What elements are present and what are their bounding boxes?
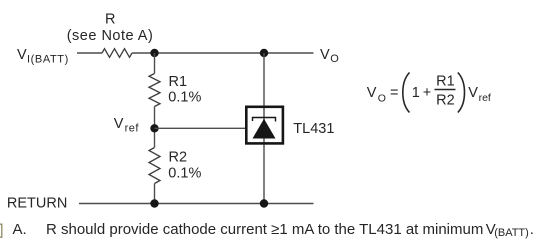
svg-text:V: V bbox=[114, 116, 124, 132]
node: TL431 anode junction bbox=[260, 199, 268, 207]
label VO bbox=[320, 47, 339, 65]
TL431 cathode bar bbox=[253, 118, 276, 122]
svg-text:TL431: TL431 bbox=[293, 121, 334, 137]
svg-text:ref: ref bbox=[125, 123, 140, 135]
svg-text:RETURN: RETURN bbox=[7, 195, 67, 211]
svg-text:R1: R1 bbox=[169, 74, 188, 90]
resistor R bbox=[102, 49, 132, 58]
svg-text:V: V bbox=[320, 47, 330, 63]
wire: resistor R to VO bbox=[132, 52, 314, 54]
wire: Vref node to TL431 ref pin bbox=[155, 127, 247, 129]
svg-text:I(BATT): I(BATT) bbox=[27, 54, 69, 66]
formula VO = (1 + R1/R2) Vref bbox=[367, 73, 491, 113]
svg-text:0.1%: 0.1% bbox=[168, 166, 201, 182]
node: TL431 cathode junction bbox=[260, 49, 268, 57]
svg-text:R2: R2 bbox=[436, 92, 455, 108]
svg-text:(see Note A): (see Note A) bbox=[67, 28, 154, 44]
label Vref bbox=[114, 116, 140, 135]
wire: VI(BATT) to resistor R bbox=[77, 52, 102, 54]
svg-text:ref: ref bbox=[479, 92, 491, 104]
svg-text:=: = bbox=[390, 85, 398, 101]
svg-text:1: 1 bbox=[412, 85, 420, 101]
svg-text:+: + bbox=[423, 85, 431, 101]
wire: left vertical, junction to R1 bbox=[154, 53, 156, 74]
node: R2 bottom junction bbox=[150, 199, 158, 207]
svg-text:O: O bbox=[378, 93, 386, 105]
op-amp U1 TL431 box bbox=[246, 107, 283, 144]
svg-text:(BATT): (BATT) bbox=[494, 227, 529, 239]
svg-text:A.: A. bbox=[13, 221, 27, 238]
wire: left vertical, R1 to R2 bbox=[154, 107, 156, 148]
svg-text:V: V bbox=[367, 85, 377, 101]
wire: left vertical, R2 to RETURN bbox=[154, 184, 156, 204]
svg-text:V: V bbox=[17, 47, 27, 63]
node Vref bbox=[150, 124, 158, 132]
svg-text:R: R bbox=[105, 12, 115, 28]
label VI(BATT) bbox=[17, 47, 69, 66]
svg-text:.: . bbox=[530, 221, 534, 238]
TL431 anode triangle bbox=[253, 119, 276, 139]
resistor R2 bbox=[149, 148, 160, 184]
svg-text:0.1%: 0.1% bbox=[168, 90, 201, 106]
node: R top junction bbox=[150, 49, 158, 57]
note A text bbox=[13, 221, 534, 239]
svg-text:R2: R2 bbox=[169, 150, 188, 166]
svg-text:R should provide cathode curre: R should provide cathode current ≥1 mA t… bbox=[46, 221, 483, 238]
svg-text:O: O bbox=[330, 53, 339, 65]
wire: right vertical through TL431, cathode to anode bbox=[263, 53, 265, 204]
svg-text:R1: R1 bbox=[436, 74, 455, 90]
revision change bar (left margin) bbox=[0, 224, 2, 237]
resistor R1 bbox=[149, 74, 160, 107]
svg-text:V: V bbox=[468, 85, 478, 101]
wire: RETURN rail bbox=[79, 203, 314, 205]
